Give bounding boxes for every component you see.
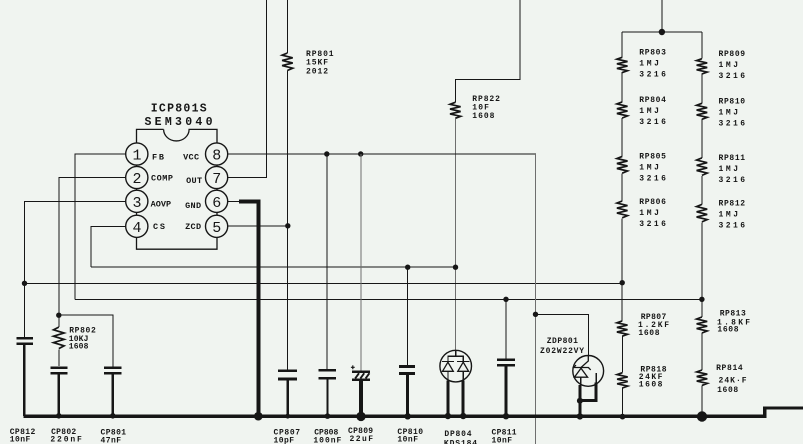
svg-text:KDS184: KDS184: [444, 440, 478, 444]
svg-text:10nF: 10nF: [397, 435, 418, 444]
svg-text:Z02W22VY: Z02W22VY: [540, 347, 585, 356]
svg-text:1608: 1608: [472, 112, 495, 121]
pin 7 circle: [206, 166, 228, 188]
wire ZCD pin5 to node: [217, 225, 288, 227]
node ZDP801 lead junction: [577, 398, 583, 404]
svg-text:1608: 1608: [717, 386, 739, 395]
resistor RP803: [617, 57, 628, 72]
diode DP804 dual diode circle: [440, 350, 472, 382]
node VCC to CP809 junction: [358, 151, 363, 156]
node ZDP801 bus junction: [577, 413, 583, 419]
svg-text:AOVP: AOVP: [151, 200, 172, 210]
capacitor CP808: [319, 370, 336, 378]
ground bus right step up: [765, 408, 803, 418]
svg-text:10nF: 10nF: [10, 435, 31, 444]
wire CP807 bottom to bus: [287, 380, 289, 416]
resistor RP806: [617, 201, 628, 218]
node AOVP junction: [22, 281, 27, 286]
svg-text:RP810: RP810: [719, 98, 746, 107]
node CS to CP810 junction: [405, 265, 410, 270]
node CP807 bus junction: [285, 414, 290, 419]
wire AOVP node down to CP812: [24, 283, 26, 337]
svg-text:COMP: COMP: [151, 173, 173, 183]
svg-text:RP803: RP803: [639, 49, 666, 58]
wire: [621, 174, 623, 201]
svg-text:10pF: 10pF: [274, 436, 295, 444]
svg-text:ZDP801: ZDP801: [547, 337, 579, 346]
ground bus main: [24, 415, 765, 418]
resistor RP814: [697, 370, 708, 385]
wire RP801 top lead from top edge: [286, 0, 288, 53]
svg-text:220nF: 220nF: [50, 435, 82, 444]
wire: [701, 74, 703, 104]
pin 8 circle: [206, 143, 228, 165]
svg-text:1: 1: [132, 148, 141, 165]
node FB to divider junction: [699, 297, 704, 302]
svg-text:2012: 2012: [306, 67, 329, 76]
wire pin6 GND thin stub: [217, 200, 240, 202]
svg-text:1MJ: 1MJ: [719, 211, 739, 220]
svg-text:1MJ: 1MJ: [719, 165, 739, 174]
svg-text:CS: CS: [153, 222, 165, 232]
node CP810 bus junction: [405, 413, 411, 419]
node DP804 left bus junction: [445, 413, 451, 419]
node CP808 bus junction: [325, 413, 331, 419]
wire pin3 AOVP to left drop: [25, 201, 137, 283]
wire zener top lead: [536, 314, 589, 355]
node DP804 right bus junction: [460, 413, 466, 419]
wire VCC drop to bottom edge: [535, 154, 537, 444]
svg-text:7: 7: [212, 171, 221, 188]
IC U801 body outline: [137, 129, 218, 249]
svg-text:GND: GND: [185, 201, 201, 211]
svg-text:VCC: VCC: [183, 153, 199, 163]
svg-text:1MJ: 1MJ: [719, 61, 739, 70]
wire CP802 bottom to bus: [57, 374, 60, 416]
svg-text:24K·F: 24K·F: [719, 376, 748, 385]
svg-text:100nF: 100nF: [313, 436, 341, 444]
resistor RP802: [54, 327, 65, 349]
resistor RP813: [697, 317, 708, 333]
wire: [621, 72, 623, 102]
wire RP818 to ground bus: [622, 388, 624, 417]
svg-text:1608: 1608: [69, 343, 89, 352]
wire FB node to RP813: [701, 299, 703, 317]
svg-text:8: 8: [212, 148, 221, 165]
resistor RP811: [697, 158, 708, 176]
svg-text:1MJ: 1MJ: [639, 107, 659, 116]
node CP801 bus junction: [110, 413, 116, 419]
wire RP812 bottom to FB node: [701, 222, 703, 299]
pin 2 circle: [126, 166, 148, 188]
wire: [701, 333, 703, 370]
zener diode ZDP801 circle: [573, 356, 604, 387]
svg-text:1MJ: 1MJ: [719, 109, 739, 118]
pin 3 circle: [126, 190, 148, 212]
node CP809 big bus junction: [356, 412, 365, 421]
pin 5 circle: [206, 215, 228, 237]
resistor RP804: [617, 102, 628, 118]
wire FB to CP811 drop: [505, 299, 507, 358]
node ZCD junction: [285, 223, 290, 228]
svg-text:RP809: RP809: [719, 50, 746, 59]
svg-text:ZCD: ZCD: [185, 222, 201, 232]
wire: [621, 336, 623, 373]
svg-text:RP812: RP812: [719, 200, 746, 209]
wire ZDP801 right lead loop: [580, 383, 596, 401]
wire: [701, 176, 703, 204]
wire CS to CP810 drop: [407, 267, 409, 365]
zener diode ZDP801 internals: [574, 356, 597, 386]
wire FB horizontal to RP813 node: [75, 298, 702, 300]
svg-text:RP805: RP805: [639, 153, 666, 162]
wire pin1 FB to left drop: [75, 154, 137, 299]
wire RP822 bottom lead to CS node: [454, 118, 456, 267]
capacitor CP812: [16, 338, 33, 344]
svg-text:2: 2: [132, 171, 141, 188]
node VCC to CP808 junction: [324, 151, 329, 156]
node RP818 bus junction: [620, 414, 626, 420]
svg-text:RP806: RP806: [639, 198, 666, 207]
resistor RP805: [617, 156, 628, 173]
wire CP812 bottom to bus: [23, 345, 26, 416]
svg-text:DP804: DP804: [444, 430, 472, 439]
svg-text:4: 4: [132, 220, 141, 237]
diode DP804 internals: [442, 350, 470, 381]
wire pin5 ZCD node down to CP807: [287, 226, 289, 370]
svg-text:3: 3: [132, 195, 141, 212]
wire pin2 COMP to left drop: [59, 178, 137, 316]
node AOVP to divider junction: [620, 280, 625, 285]
node CS to RP822 junction: [453, 265, 458, 270]
resistor RP818: [617, 373, 628, 388]
svg-text:1608: 1608: [639, 381, 663, 390]
wire VCC-net vertical from top edge: [455, 0, 520, 102]
node CP811 bus junction: [503, 413, 509, 419]
node VCC drop to zener junction: [533, 312, 538, 317]
wire OUT vertical from top edge to pin 7: [228, 0, 267, 178]
svg-text:47nF: 47nF: [101, 436, 122, 444]
wire RP806 bottom to AOVP node: [621, 218, 623, 282]
wire divider top rail: [622, 31, 702, 33]
wire RP822 node to DP804 top: [455, 267, 457, 350]
wire right divider column segments x=702: [701, 32, 703, 59]
svg-text:ICP801S: ICP801S: [151, 102, 207, 115]
node COMP junction: [56, 313, 61, 318]
resistor RP809: [697, 59, 708, 74]
svg-text:FB: FB: [152, 153, 164, 163]
capacitor CP807: [278, 371, 297, 379]
wire RP801 bottom lead to ZCD node: [286, 71, 288, 226]
wire CP811 bottom to bus: [505, 366, 508, 416]
pin 6 circle: [206, 190, 228, 212]
capacitor CP810: [399, 366, 415, 373]
svg-text:22uF: 22uF: [350, 435, 374, 444]
svg-text:1608: 1608: [638, 329, 660, 338]
resistor RP801: [282, 53, 293, 71]
svg-text:RP813: RP813: [720, 310, 747, 319]
capacitor CP801: [104, 368, 121, 374]
CP809 plus mark: [351, 365, 355, 369]
wire: [701, 119, 703, 158]
node divider top junction: [659, 29, 665, 35]
wire pin6 GND thick to bus: [239, 201, 258, 416]
capacitor CP809 polarized: [352, 372, 370, 380]
svg-text:5: 5: [212, 220, 221, 237]
wire top feed to divider columns: [661, 0, 663, 32]
wire CP810 bottom to bus: [406, 375, 409, 416]
svg-text:OUT: OUT: [186, 176, 202, 186]
wire AOVP horizontal to RP807 node: [25, 282, 623, 284]
node CP802 bus junction: [56, 413, 62, 419]
wire: [621, 118, 623, 156]
resistor RP810: [697, 103, 708, 119]
wire CP809 bottom to bus: [359, 381, 363, 416]
op-amp U801 pin 1 circle: [126, 143, 148, 165]
wire RP802 to CP802: [58, 350, 60, 367]
wire CP808 bottom to bus: [326, 379, 328, 416]
wire DP804 left anode to bus: [446, 381, 449, 417]
capacitor CP811: [497, 360, 515, 366]
capacitor CP802: [50, 368, 67, 374]
svg-text:RP811: RP811: [719, 154, 746, 163]
wire CS horizontal to RP822 node: [91, 266, 456, 268]
pin 4 circle: [126, 215, 148, 237]
wire pin4 CS to left drop: [91, 226, 137, 267]
wire pin8 VCC rail: [217, 153, 536, 155]
resistor RP812: [697, 204, 708, 222]
svg-text:1MJ: 1MJ: [639, 60, 659, 69]
svg-text:1608: 1608: [717, 326, 739, 335]
wire CP801 bottom to bus: [111, 374, 114, 416]
svg-text:1MJ: 1MJ: [639, 164, 659, 173]
wire DP804 right anode to bus: [462, 380, 465, 416]
svg-text:10nF: 10nF: [492, 437, 513, 444]
wire RP814 to ground bus: [701, 386, 703, 417]
wire VCC to CP809 drop: [360, 154, 362, 371]
svg-text:1MJ: 1MJ: [639, 209, 659, 218]
wire ZDP801 left lead to bus: [578, 385, 581, 416]
resistor RP807: [617, 321, 628, 336]
node RP814 big bus junction: [697, 411, 707, 421]
wire VCC to CP808 drop: [326, 154, 328, 369]
node GND thick bus junction: [254, 412, 263, 421]
wire AOVP node to RP807: [621, 283, 623, 321]
wire COMP node to CP801: [59, 315, 113, 366]
svg-text:RP804: RP804: [639, 96, 666, 105]
resistor RP802 top lead from COMP node: [58, 315, 60, 327]
wire left divider column segments x=622: [621, 32, 623, 57]
node FB to CP811 junction: [503, 297, 508, 302]
svg-text:6: 6: [212, 195, 221, 212]
svg-text:RP814: RP814: [716, 364, 743, 373]
resistor RP822: [450, 102, 461, 118]
